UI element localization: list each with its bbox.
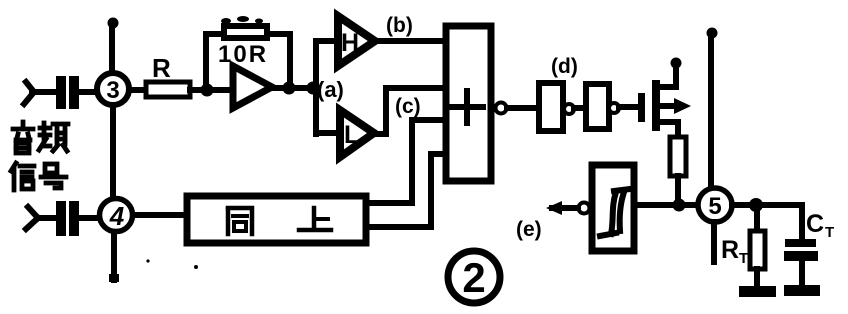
same-as-above output wire 2: [366, 224, 431, 230]
svg-text:R: R: [152, 53, 171, 83]
branch wire to H and L: [313, 41, 319, 134]
summing block U1: [446, 26, 491, 181]
wire amp output to node a: [272, 85, 314, 91]
audio signal hanzi pin: [39, 123, 68, 151]
node 4 (pin circle): [100, 199, 133, 232]
svg-text:(e): (e): [516, 218, 542, 241]
coupling capacitor input 1: [56, 76, 79, 109]
wire to inverter 2: [574, 105, 586, 111]
junction dot RT branch: [749, 198, 763, 212]
MOSFET drain terminal dot: [671, 58, 682, 69]
source resistor: [670, 137, 686, 176]
left power rail: [108, 18, 120, 283]
wire RT to ground: [754, 269, 760, 287]
hanzi shang (above): [299, 208, 331, 230]
resistor 10R: [218, 26, 268, 68]
figure number circle 2: [448, 251, 500, 303]
MOSFET Q1 gate bar: [638, 93, 645, 122]
junction dot feedback left: [201, 84, 214, 97]
schmitt output bubble: [579, 203, 590, 214]
audio signal hanzi yin: [13, 122, 33, 153]
same-as-above output wire 1: [366, 200, 412, 206]
svg-text:4: 4: [109, 201, 125, 231]
MOSFET drain lead: [660, 64, 676, 87]
coupling capacitor input 2: [56, 201, 79, 236]
wire to comparator L: [316, 130, 341, 136]
comparator L: [340, 110, 374, 157]
MOSFET substrate arrow: [660, 98, 691, 114]
wire node 4 to same-as-above block: [133, 212, 186, 218]
inverter 1 output bubble: [564, 104, 574, 114]
wire to inverter 1: [507, 105, 538, 111]
svg-text:3: 3: [106, 77, 119, 104]
schmitt output arrow (e): [546, 201, 578, 215]
MOSFET source lead: [660, 122, 678, 138]
summing block output bubble: [496, 103, 507, 114]
junction dot at schmitt input: [673, 199, 686, 212]
wire to comparator H: [316, 38, 340, 44]
svg-text:H: H: [341, 29, 359, 57]
svg-text:2: 2: [462, 254, 485, 301]
MOSFET Q1 channel bar: [652, 80, 660, 131]
inverter 2 output bubble: [609, 103, 619, 113]
wire from same-as-above output 2 to summing block: [431, 154, 446, 227]
op-amp buffer A1: [233, 66, 272, 108]
svg-text:C: C: [806, 210, 824, 238]
wire CT to ground: [799, 261, 805, 286]
node 5 (pin circle): [698, 188, 732, 222]
svg-text:T: T: [739, 250, 748, 267]
wire H output to summing block (b): [375, 38, 446, 44]
svg-text:R: R: [721, 236, 739, 264]
right power rail: [707, 28, 718, 190]
node a junction dot: [307, 82, 320, 95]
svg-text:10R: 10R: [218, 41, 268, 68]
capacitor CT: [784, 210, 834, 261]
wire schmitt box to node 5: [638, 202, 699, 208]
wire down to RT: [754, 205, 760, 232]
resistor R: [146, 53, 190, 97]
svg-text:T: T: [825, 224, 834, 241]
ground bar RT: [739, 286, 776, 297]
wire R to amp input: [190, 87, 232, 93]
hanzi tong (same): [228, 208, 252, 234]
stub below node 5: [711, 222, 717, 262]
resistor RT: [721, 231, 765, 269]
node 3 (pin circle): [97, 73, 129, 105]
wire to MOSFET gate: [619, 104, 641, 110]
input connector 1: [24, 82, 55, 104]
inverter stage 1: [539, 83, 563, 131]
svg-text:(c): (c): [395, 95, 421, 118]
wire capacitor1 to node 3: [77, 89, 100, 95]
junction dot amp output: [283, 82, 296, 95]
svg-text:(a): (a): [317, 77, 344, 102]
comparator H: [338, 16, 375, 66]
ground bar CT: [784, 285, 820, 296]
schmitt trigger block U2: [592, 165, 634, 251]
audio signal hanzi hao: [41, 164, 66, 188]
wire resistor to timing node: [675, 176, 681, 204]
wire node 5 to RT CT: [732, 205, 802, 240]
wire node3 to R: [131, 87, 147, 93]
same-as-above block (tong shang): [187, 196, 366, 243]
audio signal hanzi xin: [11, 163, 34, 190]
svg-text:L: L: [344, 121, 359, 149]
feedback wire loop: [206, 34, 290, 90]
stray scan specks: [146, 16, 263, 269]
svg-text:(b): (b): [386, 14, 413, 37]
input connector 2: [26, 207, 56, 229]
wire L output to summing block (c): [374, 88, 446, 134]
svg-text:5: 5: [708, 193, 721, 220]
inverter stage 2: [586, 84, 609, 129]
wire from same-as-above output 1 to summing block: [412, 120, 446, 203]
wire capacitor2 to node 4: [79, 215, 100, 221]
svg-text:(d): (d): [551, 55, 578, 78]
